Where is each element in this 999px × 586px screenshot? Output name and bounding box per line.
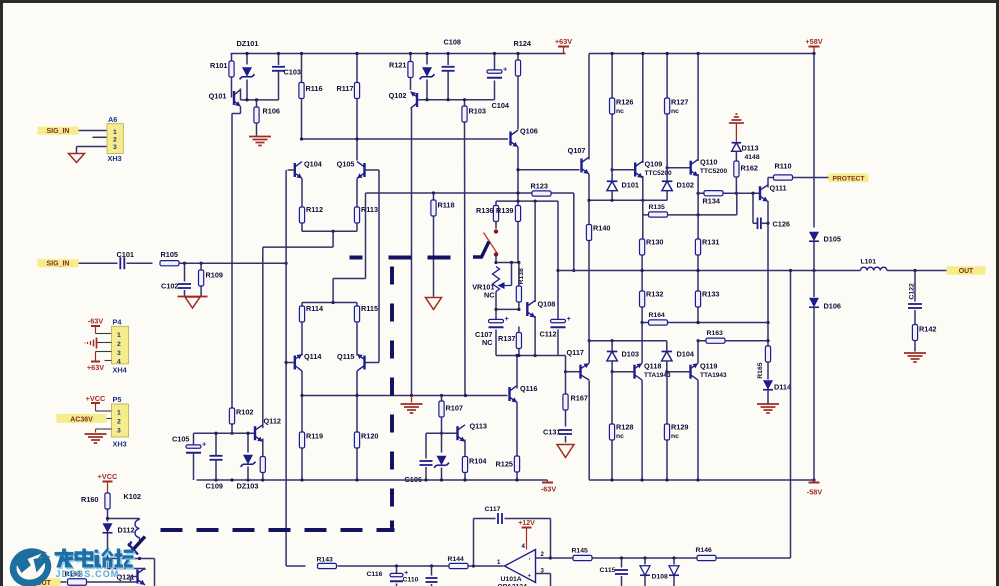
wire Q109 base — [612, 169, 634, 171]
svg-text:DZ103: DZ103 — [237, 482, 259, 491]
capacitor C110 — [403, 566, 438, 586]
wire Q108 emitter — [534, 316, 536, 356]
junction bus R117 — [355, 52, 358, 55]
wire clamp line 200 — [587, 199, 667, 202]
svg-text:C101: C101 — [117, 250, 134, 259]
power flag -63V (P4) — [88, 317, 112, 334]
svg-text:TTC5200: TTC5200 — [645, 170, 672, 177]
wire Q101 emitter long — [232, 107, 241, 409]
transistor Q105 — [337, 160, 366, 179]
wire -63V rail — [197, 478, 548, 481]
wire Q110 base — [667, 167, 690, 169]
svg-text:+58V: +58V — [805, 37, 822, 46]
svg-text:XH3: XH3 — [108, 154, 122, 163]
resistor R124 — [514, 39, 532, 130]
svg-text:Q114: Q114 — [304, 352, 322, 361]
wire Q116 collector — [515, 354, 518, 389]
wire out feedback — [790, 271, 792, 559]
wire q116 base line — [300, 394, 507, 397]
wire switch down — [494, 257, 497, 265]
relay coil K102 — [135, 519, 140, 541]
wire Q104 emitter — [301, 179, 303, 207]
svg-text:Q115: Q115 — [337, 352, 354, 361]
wire Q115 emitter — [356, 371, 358, 396]
wire input riser — [285, 170, 288, 566]
resistor R102 — [229, 408, 253, 435]
wire C126 riser — [766, 223, 769, 345]
wire AC36V to pin2 — [107, 418, 112, 420]
connector P4 XH4 — [112, 318, 129, 375]
svg-text:1: 1 — [113, 129, 117, 136]
wire R133 down — [696, 308, 699, 325]
wire bias line 214 — [643, 193, 737, 216]
svg-text:R134: R134 — [703, 197, 721, 206]
wire R105 on — [180, 262, 288, 265]
wire vas base line — [516, 168, 579, 171]
wire +58V rail down — [813, 54, 815, 228]
svg-text:Q101: Q101 — [209, 92, 227, 101]
wire R130 down — [641, 256, 643, 291]
capacitor C126 — [753, 193, 790, 229]
svg-text:+63V: +63V — [87, 363, 104, 372]
svg-text:P5: P5 — [113, 395, 122, 404]
svg-text:R164: R164 — [649, 312, 665, 319]
wire +63V top bus — [231, 53, 566, 55]
wire pin3 to ground — [77, 147, 108, 154]
diode D114 — [763, 373, 792, 404]
power flag +63V — [555, 37, 572, 54]
svg-text:R160: R160 — [81, 495, 98, 504]
svg-text:nc: nc — [671, 433, 679, 440]
svg-text:R144: R144 — [448, 556, 464, 563]
power flag +VCC (K102) — [98, 472, 118, 493]
border frame — [0, 0, 999, 3]
wire Q109 emitter — [642, 176, 644, 239]
wire R134 line — [697, 192, 759, 195]
svg-text:R140: R140 — [593, 224, 610, 233]
capacitor C106 — [405, 433, 433, 484]
wire opamp pin2 — [536, 556, 553, 559]
zener DZ103 — [237, 432, 259, 491]
resistor R135 — [649, 204, 668, 217]
wire vr bar — [496, 261, 521, 264]
resistor R134 — [703, 191, 724, 206]
svg-text:R132: R132 — [646, 290, 663, 299]
label K102 — [124, 492, 141, 501]
resistor R115 — [354, 303, 378, 356]
ground (C131) — [557, 445, 574, 458]
wire SIG_IN to pin1 — [79, 130, 108, 132]
svg-text:D106: D106 — [824, 302, 841, 311]
svg-text:R163: R163 — [707, 330, 723, 337]
net label PROTECT — [829, 174, 869, 183]
resistor R108 — [260, 457, 265, 481]
resistor R127 — [665, 52, 689, 161]
svg-text:C102: C102 — [161, 282, 178, 291]
svg-text:+: + — [528, 574, 532, 580]
resistor R118 — [431, 194, 455, 296]
svg-text:D101: D101 — [622, 181, 639, 190]
power flag -58V — [807, 480, 823, 497]
ground (C102/R109) — [178, 297, 208, 309]
transistor Q115 — [337, 352, 366, 371]
diode D105 — [809, 232, 841, 271]
transistor Q110 — [690, 158, 728, 177]
resistor R121 — [389, 52, 413, 90]
resistor R143 — [317, 557, 337, 569]
wire tail to Q112 — [263, 231, 333, 247]
svg-text:Q105: Q105 — [337, 160, 355, 169]
svg-text:R119: R119 — [306, 432, 323, 441]
transistor Q114 — [294, 352, 323, 371]
svg-text:Q102: Q102 — [389, 91, 407, 100]
svg-text:R143: R143 — [317, 557, 333, 564]
resistor R119 — [299, 396, 323, 481]
svg-text:+63V: +63V — [555, 37, 572, 46]
svg-text:+: + — [503, 65, 508, 74]
wire Q119 emitter — [697, 341, 699, 364]
junction bus C103 — [277, 52, 280, 55]
resistor R166 — [65, 571, 87, 585]
svg-text:DZ101: DZ101 — [237, 39, 259, 48]
svg-text:D105: D105 — [824, 235, 841, 244]
svg-text:C115: C115 — [600, 567, 616, 574]
transistor Q119 — [689, 362, 727, 381]
wire C112 to Q117 base — [558, 356, 580, 374]
svg-text:Q107: Q107 — [568, 146, 586, 155]
wire R164 line — [643, 321, 768, 324]
svg-text:R109: R109 — [206, 271, 223, 280]
capacitor C122 — [908, 271, 922, 326]
transistor Q112 — [254, 417, 281, 442]
power flag +58V — [805, 37, 822, 55]
resistor R142 — [912, 325, 936, 352]
diode D102 — [662, 161, 694, 201]
resistor R145 — [572, 548, 593, 561]
svg-text:R104: R104 — [469, 457, 487, 466]
wire Q118 emitter — [641, 323, 643, 364]
capacitor C117 feedback loop — [474, 506, 551, 566]
svg-text:PROTECT: PROTECT — [833, 175, 866, 182]
svg-text:Q111: Q111 — [770, 184, 787, 193]
resistor R113 — [354, 205, 378, 223]
svg-text:R133: R133 — [702, 290, 719, 299]
switch contact lower — [494, 252, 498, 256]
wire fb line left — [286, 565, 305, 567]
ground (A6 input) — [69, 154, 85, 163]
svg-text:K102: K102 — [124, 492, 141, 501]
svg-text:R120: R120 — [361, 432, 378, 441]
wire R114 R115 top join — [302, 279, 366, 305]
switch navy lever — [473, 242, 489, 258]
capacitor C116 — [367, 566, 410, 586]
resistor R160 — [81, 493, 110, 519]
svg-text:C108: C108 — [444, 38, 461, 47]
svg-text:TTC5200: TTC5200 — [700, 168, 727, 175]
resistor R133 — [695, 290, 719, 308]
junction bus R116 — [300, 52, 303, 55]
resistor R106 — [254, 100, 280, 136]
svg-text:nc: nc — [671, 108, 679, 115]
wire vr bottom — [494, 292, 520, 312]
svg-text:XH3: XH3 — [113, 440, 127, 449]
svg-text:Q109: Q109 — [645, 160, 663, 169]
resistor R167 — [563, 372, 588, 427]
resistor R144 — [448, 556, 469, 569]
wire Q121 collector — [108, 559, 146, 571]
svg-text:R130: R130 — [646, 238, 663, 247]
svg-text:SIG_IN: SIG_IN — [47, 128, 70, 135]
wire Q112 collector — [262, 247, 264, 428]
wire Q105 base — [366, 169, 380, 171]
svg-text:2: 2 — [117, 341, 121, 348]
svg-text:C116: C116 — [367, 571, 383, 578]
resistor R110 — [774, 162, 793, 181]
svg-text:R139: R139 — [496, 206, 513, 215]
transistor Q117 — [567, 348, 590, 380]
resistor R125 — [496, 456, 520, 480]
wire Q102 rail — [418, 99, 494, 101]
svg-text:C117: C117 — [485, 506, 501, 513]
svg-text:C109: C109 — [206, 482, 223, 491]
junction bus DZ101 — [245, 52, 248, 55]
svg-text:L101: L101 — [861, 259, 877, 266]
wire Q107 collector — [588, 54, 590, 160]
svg-text:NC: NC — [484, 291, 495, 300]
svg-text:D114: D114 — [774, 383, 792, 392]
svg-text:R138: R138 — [518, 268, 525, 284]
wire P4 pin2 gnd — [97, 342, 112, 344]
switch contact upper — [494, 229, 498, 233]
resistor R140 — [586, 200, 610, 340]
wire R112 R113 join — [302, 224, 357, 233]
svg-text:R106: R106 — [263, 107, 280, 116]
resistor R126 — [610, 52, 634, 163]
wire P5 pin3 gnd — [96, 429, 112, 433]
svg-text:R124: R124 — [514, 39, 532, 48]
transistor Q108 — [526, 300, 555, 318]
wire Q117 emitter up — [588, 339, 591, 363]
svg-text:R146: R146 — [696, 547, 712, 554]
svg-text:NC: NC — [482, 338, 493, 347]
svg-text:R137: R137 — [498, 334, 515, 343]
diode D113 — [732, 143, 760, 161]
svg-text:R107: R107 — [446, 404, 463, 413]
junction rail R103 — [0, 0, 2, 2]
svg-text:OUT: OUT — [959, 268, 974, 275]
net label AC36V — [57, 414, 107, 423]
resistor R132 — [640, 290, 664, 308]
svg-text:-63V: -63V — [541, 485, 557, 494]
svg-text:R135: R135 — [649, 204, 665, 211]
capacitor C102 — [161, 263, 191, 296]
svg-text:R127: R127 — [671, 98, 688, 107]
transistor Q102 — [389, 91, 419, 108]
wire Q117 collector down — [588, 381, 590, 481]
wire TOUT to R166 — [61, 581, 67, 583]
svg-text:Q116: Q116 — [520, 384, 537, 393]
svg-text:-58V: -58V — [807, 488, 823, 497]
svg-text:R129: R129 — [671, 423, 688, 432]
svg-text:U101A: U101A — [501, 576, 522, 583]
resistor R112 — [299, 205, 323, 223]
svg-text:C126: C126 — [773, 220, 790, 229]
wire Q118 collector — [641, 380, 643, 480]
wire Q112 emitter — [262, 439, 264, 457]
resistor R165 — [757, 346, 771, 379]
svg-text:-63V: -63V — [88, 317, 104, 326]
wire Q119 collector — [697, 380, 699, 480]
svg-text:C105: C105 — [172, 435, 189, 444]
diode D104 — [662, 341, 695, 374]
capacitor C108 — [442, 38, 461, 102]
svg-text:2: 2 — [117, 419, 121, 426]
svg-text:2: 2 — [113, 137, 117, 144]
dashed link line — [161, 258, 451, 531]
transistor Q121 — [117, 568, 146, 585]
svg-text:R105: R105 — [161, 250, 178, 259]
power flag +12V (U101) — [518, 520, 535, 550]
wire Q105 base riser — [378, 170, 380, 363]
svg-text:TTA1943: TTA1943 — [700, 372, 727, 379]
resistor R109 — [199, 263, 223, 296]
wire Q115 base — [366, 362, 380, 364]
svg-text:+12V: +12V — [518, 520, 535, 527]
wire feedback line — [366, 191, 576, 272]
wire L101 to OUT — [887, 269, 947, 272]
svg-text:3: 3 — [117, 428, 121, 435]
wire R146 to out — [717, 557, 791, 559]
ground (R118) — [426, 296, 442, 310]
capacitor C107 — [475, 309, 509, 355]
svg-text:R162: R162 — [741, 164, 758, 173]
wire Q119 base — [667, 371, 690, 373]
resistor R130 — [640, 238, 664, 256]
svg-text:D108: D108 — [652, 574, 668, 581]
resistor R129 — [664, 372, 688, 480]
zener DZ104 — [434, 433, 449, 480]
wire Q109 collector — [641, 52, 644, 163]
wire relay top bar — [106, 517, 140, 520]
resistor R137 — [498, 327, 521, 356]
diode D108 — [640, 558, 668, 586]
svg-text:R142: R142 — [919, 325, 936, 334]
diode D109 — [669, 558, 679, 586]
svg-text:SIG_IN: SIG_IN — [47, 261, 70, 268]
svg-text:3: 3 — [117, 350, 121, 357]
svg-text:R103: R103 — [469, 107, 486, 116]
svg-text:D113: D113 — [742, 144, 759, 153]
wire relay to fb — [154, 559, 156, 586]
junction rail DZ101 — [245, 98, 248, 101]
svg-text:+: + — [505, 314, 510, 323]
wire Q106 base line — [300, 137, 508, 140]
capacitor C112 — [540, 201, 572, 355]
svg-text:A6: A6 — [108, 115, 117, 124]
wire R163 line — [589, 339, 768, 342]
transistor Q116 — [508, 384, 537, 402]
svg-text:Q118: Q118 — [644, 362, 661, 371]
connector A6 XH3 — [107, 115, 123, 163]
ground (bias) — [401, 396, 423, 414]
zener DZ101 — [237, 39, 259, 100]
svg-text:+: + — [567, 314, 572, 323]
wire input — [79, 262, 118, 264]
relay contact lever — [128, 537, 145, 555]
resistor R162 — [734, 161, 758, 195]
wire Q110 collector — [697, 52, 700, 161]
transistor Q106 — [509, 127, 538, 147]
ground (D113) — [729, 114, 744, 142]
wire pin2 stub — [93, 136, 108, 138]
wire Q114 base — [286, 362, 293, 364]
wire Q101 rail — [241, 89, 279, 100]
ground (R142) — [904, 353, 926, 362]
resistor R163 — [706, 330, 725, 343]
transistor Q113 — [456, 422, 487, 442]
connector P5 XH3 — [112, 395, 129, 449]
svg-text:R125: R125 — [496, 460, 513, 469]
svg-text:D102: D102 — [677, 181, 694, 190]
wire Q106 emitter — [517, 147, 519, 201]
svg-text:+VCC: +VCC — [98, 472, 118, 481]
wire Q105 emitter — [356, 179, 358, 207]
svg-text:XH4: XH4 — [113, 366, 128, 375]
svg-text:R167: R167 — [571, 394, 588, 403]
wire q112 top bar — [194, 432, 255, 434]
svg-text:3: 3 — [113, 144, 117, 151]
wire OUT rail — [558, 269, 861, 272]
zener DZ102 — [420, 52, 435, 101]
wire Q104 base — [288, 169, 294, 171]
junction rail R106 — [255, 98, 258, 101]
power flag -63V — [541, 480, 557, 494]
wire Q116 emitter — [516, 402, 518, 456]
svg-text:D104: D104 — [677, 350, 695, 359]
transistor Q111 — [759, 184, 787, 202]
svg-text:AC36V: AC36V — [70, 416, 93, 423]
svg-text:Q117: Q117 — [567, 348, 584, 357]
capacitor C115 — [600, 558, 629, 586]
svg-text:4: 4 — [117, 359, 121, 366]
resistor R128 — [609, 372, 633, 480]
op-amp U101A — [497, 544, 545, 586]
capacitor C131 — [543, 428, 572, 443]
svg-text:C122: C122 — [909, 283, 916, 299]
svg-text:D103: D103 — [622, 350, 639, 359]
capacitor C103 — [272, 54, 301, 100]
svg-text:1: 1 — [117, 332, 121, 339]
resistor R131 — [695, 238, 719, 256]
svg-text:4148: 4148 — [745, 154, 760, 161]
wire C101 to R105 — [127, 262, 153, 264]
diode D103 — [607, 341, 639, 374]
wire Q102 collector long — [411, 108, 413, 395]
wire Q111 collector — [768, 178, 774, 188]
wire Q118 base — [612, 371, 634, 373]
svg-text:P4: P4 — [113, 318, 123, 327]
wire opamp pin3 — [536, 574, 551, 586]
wire P4 pin3 — [96, 352, 112, 361]
transistor Q109 — [634, 160, 672, 178]
net label OUT — [947, 266, 986, 275]
wire relay bottom bar — [106, 557, 155, 560]
transistor Q104 — [294, 160, 323, 179]
diode D112 — [103, 519, 135, 559]
svg-text:+VCC: +VCC — [86, 394, 106, 403]
resistor R120 — [354, 396, 378, 481]
wire cluster top bar — [496, 200, 558, 203]
